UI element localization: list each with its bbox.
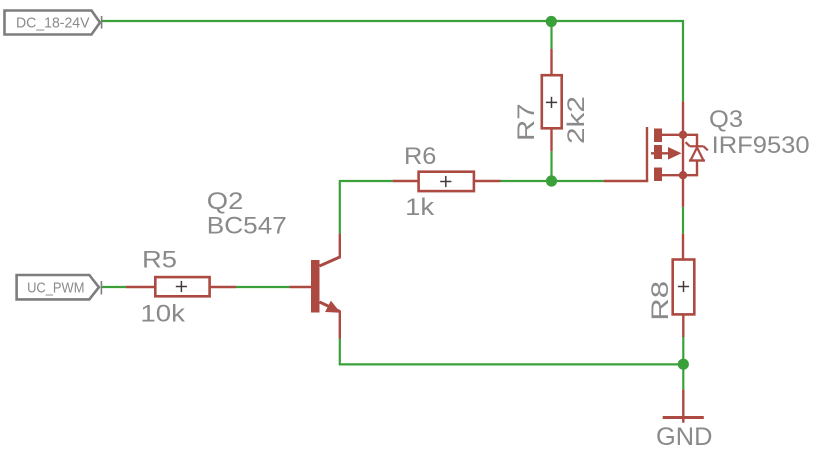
wire Q3 drain to R8 bbox=[682, 207, 684, 234]
Q3 body diode cathode wing right bbox=[704, 146, 708, 150]
svg-text:2k2: 2k2 bbox=[563, 96, 590, 144]
svg-text:IRF9530: IRF9530 bbox=[712, 132, 810, 159]
Q3 source-drain vertical line bbox=[682, 101, 684, 207]
wire R5 to Q2 base bbox=[236, 286, 290, 288]
Q3 body diode cathode bar bbox=[690, 145, 704, 147]
flag UC_PWM bbox=[17, 275, 99, 299]
svg-text:1k: 1k bbox=[405, 194, 435, 221]
wire UC_PWM to R5 bbox=[102, 286, 127, 288]
svg-text:BC547: BC547 bbox=[207, 213, 287, 240]
resistor R7 bbox=[542, 49, 562, 151]
wire R7 bottom to gate net bbox=[550, 151, 552, 181]
wire R8 bottom to junction bbox=[682, 337, 684, 364]
Q3 body diode cathode wing left bbox=[686, 142, 690, 146]
Q3 source connector top bbox=[662, 134, 683, 136]
Q2 base pin bbox=[290, 286, 312, 288]
svg-text:R8: R8 bbox=[647, 281, 674, 321]
Q2 emitter arrow bbox=[325, 301, 340, 313]
pin tick UC_PWM bbox=[100, 281, 102, 294]
Q3 channel bar middle bbox=[654, 145, 662, 159]
wire gate net horizontal R6 to Q3 bbox=[501, 180, 604, 182]
transistor Q2 BC547 bbox=[290, 234, 341, 339]
transistor Q3 IRF9530 (P-MOSFET) bbox=[604, 101, 708, 207]
ground symbol GND bbox=[663, 390, 704, 423]
resistor R8 bbox=[673, 234, 695, 337]
wire net DC_18-24V top horizontal bbox=[102, 21, 684, 101]
Q3 body diode top link bbox=[683, 135, 697, 147]
svg-text:10k: 10k bbox=[140, 301, 186, 328]
svg-text:R7: R7 bbox=[513, 103, 540, 141]
resistor R6 bbox=[393, 172, 501, 191]
Q3 gate bar bbox=[646, 127, 648, 182]
node junction bottom net bbox=[678, 359, 689, 370]
Q2 emitter diagonal bbox=[320, 302, 340, 311]
wire R6 left to Q2 collector bbox=[340, 181, 393, 234]
Q2 base bar bbox=[311, 260, 320, 313]
Q3 substrate arrow bbox=[668, 147, 682, 160]
wire R7 top from junction bbox=[550, 21, 552, 49]
svg-text:Q2: Q2 bbox=[207, 188, 244, 215]
Q3 drain connector bottom bbox=[662, 174, 683, 176]
flag DC_18-24V bbox=[5, 11, 101, 35]
Q3 internal node dot bottom bbox=[679, 171, 687, 179]
Q3 channel bar top bbox=[654, 129, 662, 143]
wire junction to GND bbox=[682, 364, 684, 389]
svg-text:GND: GND bbox=[656, 423, 712, 451]
node junction R7 bottom bbox=[546, 175, 557, 186]
Q3 body diode bottom link bbox=[683, 161, 697, 176]
Q2 collector pin bbox=[339, 234, 341, 258]
resistor R5 bbox=[126, 277, 236, 296]
Q2 emitter pin bbox=[339, 311, 341, 339]
Q2 collector diagonal bbox=[320, 257, 341, 266]
svg-text:UC_PWM: UC_PWM bbox=[27, 279, 84, 296]
Q3 body diode anode bar bbox=[689, 159, 705, 161]
svg-text:Q3: Q3 bbox=[709, 106, 743, 133]
Q3 substrate connector middle bbox=[651, 152, 668, 154]
svg-text:DC_18-24V: DC_18-24V bbox=[16, 14, 90, 31]
Q3 body diode triangle bbox=[691, 148, 704, 161]
pin tick DC_18-24V bbox=[101, 16, 103, 29]
Q3 channel bar bottom bbox=[654, 168, 662, 182]
wire Q2 emitter down to bottom net bbox=[340, 339, 684, 365]
svg-text:R5: R5 bbox=[142, 247, 177, 274]
node junction top at R7 bbox=[546, 16, 557, 27]
svg-text:R6: R6 bbox=[404, 143, 436, 170]
Q3 gate pin bbox=[604, 180, 649, 182]
Q3 internal node dot top bbox=[679, 131, 687, 139]
